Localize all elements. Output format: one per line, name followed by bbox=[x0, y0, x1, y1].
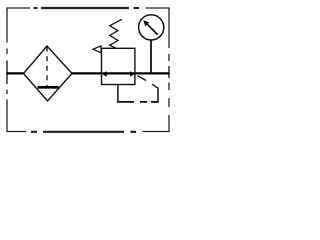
enclosure boundary top edge bbox=[7, 7, 170, 9]
pilot line stub from regulator bottom bbox=[117, 85, 119, 103]
enclosure boundary right edge bbox=[168, 7, 170, 132]
gauge G1 needle bbox=[147, 24, 158, 35]
pilot feedback dashed horizontal segment 3 bbox=[151, 101, 159, 103]
pilot feedback dashed horizontal segment 1 bbox=[117, 101, 134, 103]
pilot tap diagonal dash 2 bbox=[152, 84, 158, 88]
pilot feedback dashed horizontal segment 2 bbox=[140, 101, 147, 103]
gauge G1 dial (circle) bbox=[139, 15, 164, 40]
filter F1 element (inner dashed line) bbox=[46, 47, 48, 88]
filter F1 sediment bar bbox=[38, 86, 59, 89]
enclosure boundary bottom edge bbox=[7, 131, 170, 133]
pilot tap diagonal dash 1 bbox=[138, 76, 146, 81]
enclosure boundary left edge bbox=[6, 7, 8, 132]
gauge G1 needle arrowhead bbox=[143, 20, 149, 26]
regulator R1 vent arrow bbox=[93, 46, 101, 53]
wire: line from filter to regulator bbox=[72, 72, 103, 74]
regulator R1 flow path (double arrow) bbox=[102, 72, 135, 74]
regulator R1 spring bbox=[110, 19, 122, 48]
regulator R1 body (square) bbox=[102, 48, 135, 84]
filter F1 body (diamond) bbox=[24, 46, 73, 101]
wire: outlet line from regulator to right boundary bbox=[135, 72, 170, 74]
pilot feedback vertical bbox=[157, 88, 159, 103]
wire: inlet line from left boundary to filter bbox=[6, 72, 24, 74]
gauge G1 line to outlet bbox=[150, 40, 152, 73]
